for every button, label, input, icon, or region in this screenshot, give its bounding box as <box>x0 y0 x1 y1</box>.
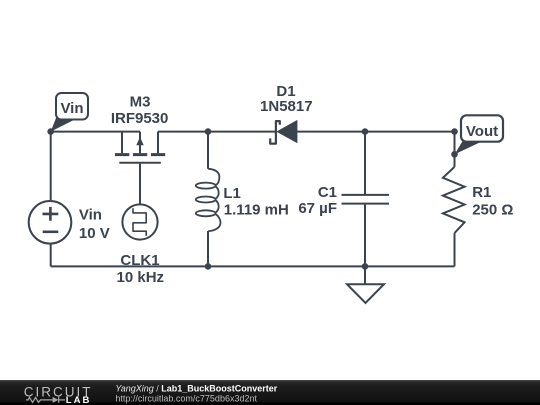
svg-text:67 µF: 67 µF <box>298 200 337 217</box>
svg-text:M3: M3 <box>130 93 151 110</box>
svg-text:http://circuitlab.com/c775db6x: http://circuitlab.com/c775db6x3d2nt <box>115 394 257 404</box>
svg-text:Vin: Vin <box>60 100 83 117</box>
svg-text:1.119 mH: 1.119 mH <box>224 201 289 218</box>
svg-text:250 Ω: 250 Ω <box>472 202 513 219</box>
svg-text:10 V: 10 V <box>79 225 110 242</box>
svg-text:YangXing / Lab1_BuckBoostConve: YangXing / Lab1_BuckBoostConverter <box>115 384 277 394</box>
svg-text:CLK1: CLK1 <box>120 252 159 269</box>
svg-text:10 kHz: 10 kHz <box>117 269 165 286</box>
svg-text:IRF9530: IRF9530 <box>111 110 169 127</box>
svg-text:1N5817: 1N5817 <box>260 98 313 115</box>
svg-text:R1: R1 <box>472 184 491 201</box>
svg-text:LAB: LAB <box>66 395 92 405</box>
svg-text:L1: L1 <box>223 185 241 202</box>
svg-text:Vin: Vin <box>79 207 102 224</box>
svg-text:Vout: Vout <box>466 123 498 140</box>
svg-text:C1: C1 <box>318 184 337 201</box>
